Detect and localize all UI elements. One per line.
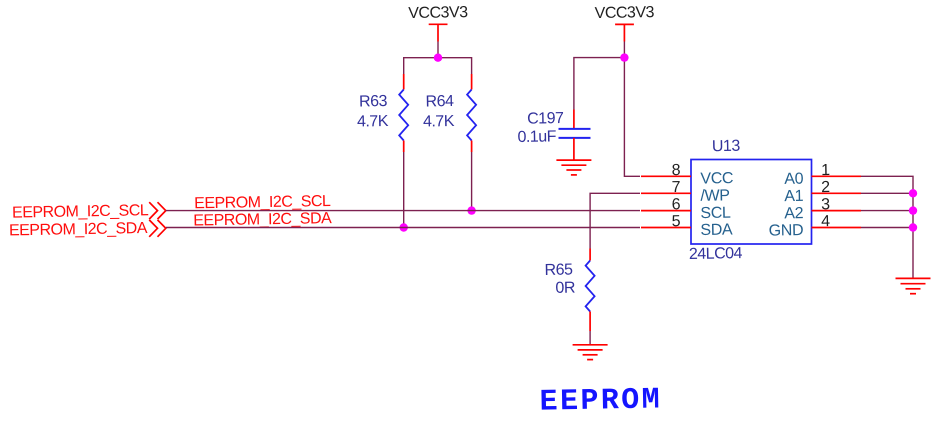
junction dot R64/SCL bbox=[467, 206, 475, 214]
svg-text:SDA: SDA bbox=[700, 221, 733, 239]
capacitor C197 bbox=[559, 110, 591, 160]
svg-text:4.7K: 4.7K bbox=[423, 113, 455, 131]
svg-text:8: 8 bbox=[672, 162, 681, 179]
wire R63 to SDA net bbox=[403, 152, 405, 228]
junction dot VCC2 bbox=[620, 53, 628, 61]
svg-text:R63: R63 bbox=[359, 93, 388, 110]
pin 8 stub bbox=[641, 175, 691, 177]
ground (below R65) bbox=[573, 345, 608, 360]
wire VCC2 stem down to pin 8 bbox=[624, 42, 640, 177]
svg-text:R65: R65 bbox=[544, 261, 573, 278]
svg-text:A0: A0 bbox=[784, 171, 804, 188]
svg-text:EEPROM: EEPROM bbox=[539, 383, 662, 419]
pin 1 stub bbox=[812, 175, 862, 177]
svg-text:4.7K: 4.7K bbox=[357, 113, 389, 131]
pin 7 stub bbox=[641, 192, 691, 194]
pin 2 stub bbox=[812, 192, 862, 194]
svg-text:GND: GND bbox=[769, 222, 804, 240]
svg-text:7: 7 bbox=[672, 179, 681, 196]
svg-text:U13: U13 bbox=[712, 138, 741, 155]
pin 5 stub bbox=[641, 227, 691, 229]
svg-text:0.1uF: 0.1uF bbox=[517, 128, 556, 146]
pin 3 stub bbox=[812, 210, 862, 212]
resistor R63 bbox=[399, 74, 408, 152]
svg-text:EEPROM_I2C_SDA: EEPROM_I2C_SDA bbox=[9, 220, 148, 239]
svg-text:24LC04: 24LC04 bbox=[689, 245, 743, 263]
power VCC3V3 bar symbol (right) bbox=[615, 24, 634, 41]
svg-text:A2: A2 bbox=[784, 205, 804, 222]
svg-text:2: 2 bbox=[821, 179, 830, 196]
svg-text:/WP: /WP bbox=[700, 187, 729, 205]
wire pin7 to R65 bbox=[590, 193, 640, 248]
junction dot R63/SDA bbox=[400, 223, 408, 231]
ground (right rail) bbox=[896, 278, 931, 293]
port chevron SDA bbox=[149, 220, 166, 237]
svg-text:4: 4 bbox=[821, 213, 830, 230]
svg-text:3: 3 bbox=[821, 196, 830, 213]
svg-text:6: 6 bbox=[672, 196, 681, 213]
svg-text:SCL: SCL bbox=[700, 205, 731, 223]
svg-text:C197: C197 bbox=[527, 110, 564, 128]
svg-text:R64: R64 bbox=[425, 93, 454, 110]
wire pin4 to rail bbox=[861, 227, 913, 229]
wire pin2 to rail bbox=[861, 192, 913, 194]
resistor R65 bbox=[586, 249, 595, 332]
wire pin3 to rail bbox=[861, 210, 913, 212]
svg-text:5: 5 bbox=[672, 213, 681, 230]
op IC U13 box bbox=[691, 160, 812, 245]
wire pin1 to ground rail bbox=[861, 176, 913, 278]
wire SCL net bbox=[166, 210, 640, 212]
power VCC3V3 bar symbol (left) bbox=[429, 24, 448, 41]
junction dot pin3 bbox=[909, 206, 917, 214]
junction dot pin2 bbox=[909, 189, 917, 197]
svg-text:1: 1 bbox=[821, 162, 830, 179]
wire R65 to ground bbox=[589, 331, 591, 345]
wire VCC2 branch to C197 bbox=[574, 58, 625, 110]
wire VCC1 stem bbox=[437, 42, 439, 58]
pin 4 stub bbox=[812, 227, 862, 229]
svg-text:VCC3V3: VCC3V3 bbox=[408, 4, 468, 22]
svg-text:VCC: VCC bbox=[700, 170, 733, 188]
svg-text:EEPROM_I2C_SCL: EEPROM_I2C_SCL bbox=[194, 193, 331, 212]
resistor R64 bbox=[467, 74, 476, 152]
wire SDA net bbox=[166, 227, 640, 229]
svg-text:A1: A1 bbox=[784, 188, 804, 205]
svg-text:0R: 0R bbox=[555, 280, 575, 297]
wire R64 to SCL net bbox=[471, 152, 473, 211]
wire bus to pullup resistors bbox=[404, 58, 472, 74]
junction dot pin4 bbox=[909, 223, 917, 231]
svg-text:EEPROM_I2C_SCL: EEPROM_I2C_SCL bbox=[12, 202, 149, 221]
svg-text:EEPROM_I2C_SDA: EEPROM_I2C_SDA bbox=[193, 210, 332, 229]
svg-text:VCC3V3: VCC3V3 bbox=[595, 4, 655, 22]
junction dot VCC1 bbox=[434, 54, 442, 62]
ground (below C197) bbox=[556, 160, 591, 175]
pin 6 stub bbox=[641, 210, 691, 212]
port chevron SCL bbox=[149, 202, 166, 219]
